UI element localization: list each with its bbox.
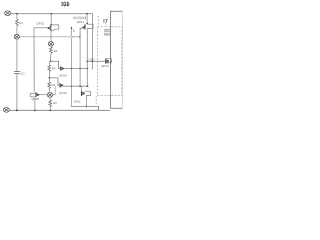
wire inner ground rail <box>71 107 99 111</box>
hop circle on W1 <box>71 36 73 38</box>
wire left column to node N1 <box>16 26 18 34</box>
junction dot mid1 <box>50 60 52 62</box>
svg-text:QP11: QP11 <box>77 20 85 24</box>
junction dot QP11 top <box>86 23 88 25</box>
junction dot bottom-R2 <box>49 110 51 112</box>
wire left column lower <box>16 74 18 111</box>
transistor QN11 diode-connected loop right <box>82 91 91 96</box>
svg-text:R4: R4 <box>54 49 58 53</box>
terminal T2 bottom-left <box>4 107 10 112</box>
wire branch to QN13 base <box>50 78 60 85</box>
wire CNT to QP12 <box>87 60 105 62</box>
svg-text:R1: R1 <box>19 21 23 25</box>
wire N3 to R4 <box>50 46 52 47</box>
wire W1 from N1 rightwards <box>20 36 71 38</box>
wire R2 to bottom rail <box>49 107 51 111</box>
arrowhead at In top <box>71 26 73 28</box>
resistor R5 <box>48 65 51 72</box>
svg-text:QN14: QN14 <box>59 74 67 78</box>
wire junction2 to R6 <box>48 78 50 82</box>
label 17 with leader <box>103 20 107 23</box>
resistor R6 <box>48 82 51 89</box>
svg-text:QP10: QP10 <box>36 22 44 26</box>
junction dot bottom-left column <box>16 110 18 112</box>
wire QN11 top to y86 line <box>81 86 83 91</box>
capacitor C1 <box>14 72 20 74</box>
resistor R2 <box>49 100 52 107</box>
dashed box A <box>98 27 122 96</box>
solid box faint right edge <box>121 11 123 108</box>
node N2 crossed circle <box>47 92 52 97</box>
wire QN1B down to rail <box>34 97 36 111</box>
svg-text:R2: R2 <box>53 101 57 105</box>
wire x80 vertical QP11 emitter line <box>80 28 83 86</box>
dashed stub above box A <box>97 16 99 27</box>
junction dots on y68.5 <box>71 68 73 70</box>
junction dot CNT <box>86 60 88 62</box>
wire In vertical x71.5 full <box>71 27 73 36</box>
wire junction1 to R5 <box>49 61 50 65</box>
wire QN14 emitter horizontal y68.5 <box>64 68 88 70</box>
junction dot W1 end <box>79 36 81 38</box>
wire branch to QN14 base <box>50 61 60 68</box>
junction dot QP10 top <box>50 24 52 26</box>
wire R6 to node N2 <box>48 89 51 93</box>
wire QN1B emitter to N2 <box>39 94 47 96</box>
junction dot rail-left column <box>16 13 18 15</box>
svg-text:QP12: QP12 <box>101 64 109 68</box>
wire QN13 emitter horizontal y86.2 <box>63 85 87 87</box>
transistor QP11 diode-connected facing left <box>82 24 93 29</box>
wire QP10 emitter from rail <box>50 14 52 25</box>
wire R4 to junction1 <box>49 54 52 62</box>
svg-text:In: In <box>73 29 76 33</box>
wire QP11 from rail <box>86 14 88 24</box>
svg-text:QN13: QN13 <box>59 91 67 95</box>
wire top rail <box>11 14 93 70</box>
wire left column upper <box>16 14 18 19</box>
wire left column middle <box>16 39 18 72</box>
wire QN11 down to inner rail <box>85 95 87 106</box>
svg-text:R5: R5 <box>52 66 56 70</box>
dashed stub below box A <box>95 96 97 104</box>
wire vertical x34 down to QN1B <box>33 28 35 93</box>
wire into QP10 from x34 <box>34 27 48 29</box>
junction dot rail-QP11 <box>86 13 88 15</box>
wire N2 to R2 <box>49 97 51 100</box>
transistor QN14 <box>61 66 64 70</box>
junction dot x92.4 on CNT wire <box>92 61 94 63</box>
text block two rows <box>104 29 109 35</box>
terminal T1 top-left <box>5 11 11 16</box>
wire QP10 collector down <box>50 31 52 41</box>
node N3 crossed circle <box>48 41 53 46</box>
transistor QP10 diode-connected PNP <box>48 25 59 32</box>
node N1 crossed circle <box>14 35 19 40</box>
resistor R1 <box>16 19 19 26</box>
solid block box right <box>111 11 123 108</box>
wire R5 to junction2 <box>48 72 50 78</box>
junction dot QN11-inner rail <box>86 106 88 108</box>
junction dot mid2 <box>49 77 51 79</box>
junction dot rail-QP10 <box>50 13 52 15</box>
figure label 10b with underline <box>61 2 69 9</box>
wire QP11 collector down x87.3 <box>86 28 88 86</box>
junction dots on y86.2 <box>71 86 72 87</box>
wire bottom rail <box>9 109 110 111</box>
transistor QP12 diode-connected <box>106 59 112 64</box>
transistor QN13 <box>60 83 63 87</box>
svg-text:QN11: QN11 <box>74 99 82 103</box>
wire N2 right stub up to y86 line <box>53 86 56 95</box>
svg-text:C1: C1 <box>21 71 25 75</box>
block caption text above QP11 <box>73 17 86 19</box>
transistor QN1B diode-connected, loop left <box>30 92 39 97</box>
junction dot bottom-QN1B <box>34 110 36 112</box>
resistor R4 <box>50 47 53 54</box>
